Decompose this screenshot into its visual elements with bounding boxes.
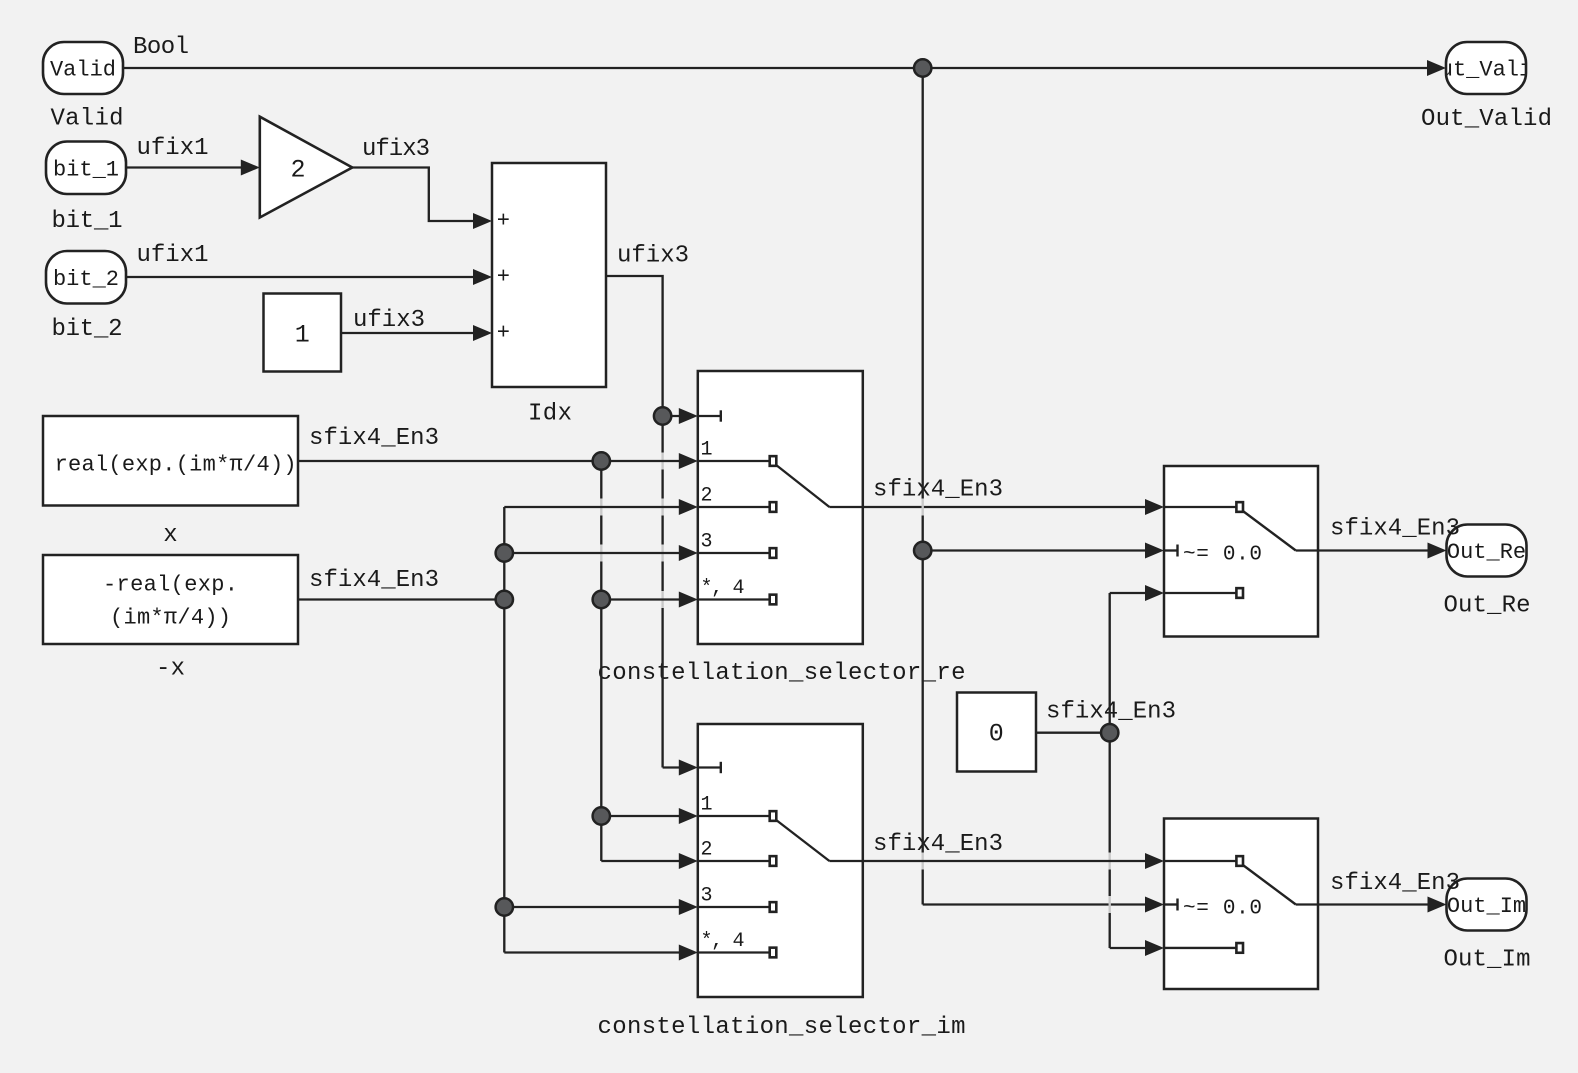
svg-text:Out_Re: Out_Re <box>1444 593 1531 620</box>
multiport switch constellation_selector_im <box>698 724 863 997</box>
svg-text:Out_Valid: Out_Valid <box>1421 106 1552 133</box>
svg-text:Bool: Bool <box>133 34 189 61</box>
wire -x net corner to selector_re port 2 <box>504 506 683 508</box>
switch_im control stub <box>1165 903 1178 905</box>
wire constant 1 to Idx input 3 <box>341 332 477 334</box>
svg-text:real(exp.(im*π/4)): real(exp.(im*π/4)) <box>55 453 297 478</box>
wire x to selector_re port 1 <box>298 460 683 462</box>
selector_re port *,4 pad <box>770 595 777 605</box>
selector_re port 1 pad <box>770 456 777 466</box>
svg-text:+: + <box>497 208 510 233</box>
svg-text:sfix4_En3: sfix4_En3 <box>1330 870 1460 897</box>
switch_im input 1 stub <box>1165 860 1237 862</box>
wire 0 net corner to switch_im input 3 <box>1110 947 1150 949</box>
wire constant 0 to junction <box>1036 732 1110 734</box>
svg-text:0: 0 <box>989 720 1004 749</box>
selector_re port 2 stub <box>699 506 770 508</box>
junction dot -x net at selector_im port 3 <box>496 898 513 915</box>
wire -x to junction <box>298 598 504 600</box>
switch_re input 1 stub <box>1165 506 1237 508</box>
svg-text:+: + <box>497 320 510 345</box>
wire Valid to Out_Valid <box>123 67 1431 69</box>
wire 0 net vertical (with crossing gaps) <box>1109 593 1111 853</box>
svg-text:1: 1 <box>701 439 713 462</box>
svg-text:2: 2 <box>701 839 713 862</box>
junction dot x net at selector_im port 1 <box>593 807 610 824</box>
svg-text:Idx: Idx <box>528 401 572 428</box>
wire bit_1 to gain <box>126 166 245 168</box>
svg-text:constellation_selector_im: constellation_selector_im <box>598 1014 966 1041</box>
svg-text:*, 4: *, 4 <box>701 577 745 600</box>
svg-text:bit_2: bit_2 <box>52 316 123 343</box>
selector_im port 2 pad <box>770 856 777 866</box>
selector_re switch arm <box>776 465 830 508</box>
svg-text:bit_1: bit_1 <box>52 208 123 235</box>
wire bit_2 to Idx input 2 <box>126 276 477 278</box>
svg-text:sfix4_En3: sfix4_En3 <box>1330 516 1460 543</box>
wire -x net to selector_re port 3 <box>504 552 683 554</box>
wire selector_im out to switch_im input 1 <box>863 860 1150 862</box>
svg-text:constellation_selector_re: constellation_selector_re <box>598 660 966 687</box>
junction dot -x net at selector_re port 3 <box>496 544 513 561</box>
svg-text:1: 1 <box>295 321 310 350</box>
svg-text:-x: -x <box>156 656 185 683</box>
svg-text:bit_1: bit_1 <box>53 157 119 182</box>
svg-text:3: 3 <box>701 885 713 908</box>
switch_im input 3 pad <box>1236 943 1243 953</box>
selector_im port *,4 pad <box>770 948 777 958</box>
switch_im input 1 pad <box>1236 856 1243 866</box>
selector_re port *,4 stub <box>699 598 770 600</box>
sum block Idx <box>492 163 606 387</box>
switch block for Out_Im <box>1164 819 1318 990</box>
switch block for Out_Re <box>1164 466 1318 637</box>
junction dot Valid net (top) <box>914 59 931 76</box>
constant block 0 <box>957 693 1036 772</box>
junction dot x net at selector_re port *,4 <box>593 591 610 608</box>
svg-text:*, 4: *, 4 <box>701 930 745 953</box>
selector_im port 1 pad <box>770 811 777 821</box>
constant block -x = -real(exp.(im*pi/4)) <box>43 555 298 644</box>
svg-text:~= 0.0: ~= 0.0 <box>1183 544 1262 567</box>
selector_re control stub <box>699 415 721 417</box>
svg-text:Out_Im: Out_Im <box>1444 947 1531 974</box>
wire Valid net vertical (with crossing gaps) <box>922 68 924 499</box>
selector_re port 2 pad <box>770 502 777 512</box>
constant block x = real(exp.(im*pi/4)) <box>43 416 298 506</box>
wire -x net to selector_im port 3 <box>504 906 683 908</box>
svg-text:sfix4_En3: sfix4_En3 <box>873 831 1003 858</box>
svg-text:ufix3: ufix3 <box>353 307 425 334</box>
switch_re input 3 pad <box>1236 588 1243 598</box>
junction dot x net on x wire <box>593 452 610 469</box>
selector_im port *,4 stub <box>699 951 770 953</box>
wire switch_re out to Out_Re <box>1318 549 1432 551</box>
svg-text:Out_Im: Out_Im <box>1447 894 1526 919</box>
svg-text:bit_2: bit_2 <box>53 267 119 292</box>
wire selector_re out to switch_re input 1 <box>863 506 1150 508</box>
svg-text:sfix4_En3: sfix4_En3 <box>309 425 439 452</box>
svg-text:2: 2 <box>290 156 305 185</box>
svg-text:Out_Re: Out_Re <box>1447 540 1526 565</box>
wire control junction to selector_re control <box>663 415 683 417</box>
svg-text:(im*π/4)): (im*π/4)) <box>110 606 231 631</box>
svg-text:Valid: Valid <box>50 58 116 83</box>
svg-text:-real(exp.: -real(exp. <box>103 573 238 598</box>
wire switch_im out to Out_Im <box>1318 903 1432 905</box>
svg-text:x: x <box>163 522 177 549</box>
selector_re port 3 stub <box>699 552 770 554</box>
wire gain out elbow to Idx input 1 <box>352 168 477 222</box>
selector_im port 3 pad <box>770 902 777 912</box>
wire x net vertical (with crossing gaps) <box>600 461 602 499</box>
wire x net to selector_re port *,4 <box>601 598 683 600</box>
wire -x net vertical <box>503 507 505 953</box>
wire Valid net corner to switch_im control <box>923 903 1150 905</box>
switch_re input 1 pad <box>1236 502 1243 512</box>
svg-text:2: 2 <box>701 485 713 508</box>
selector_im switch arm <box>776 820 830 862</box>
wire Valid net to switch_re control <box>923 549 1150 551</box>
svg-text:Valid: Valid <box>51 106 124 133</box>
wire Idx net vertical to selector_im control (with crossing gaps) <box>661 425 663 453</box>
selector_im control stub <box>699 766 721 768</box>
svg-text:~= 0.0: ~= 0.0 <box>1183 898 1262 921</box>
selector_re port 3 pad <box>770 548 777 558</box>
gain block value 2 <box>260 117 353 218</box>
junction dot 0 net <box>1101 724 1118 741</box>
svg-text:sfix4_En3: sfix4_En3 <box>1046 699 1176 726</box>
switch_re arm <box>1242 511 1296 551</box>
wire Idx out elbow down <box>606 276 663 407</box>
selector_re port 1 stub <box>699 460 770 462</box>
svg-text:ufix3: ufix3 <box>617 243 689 270</box>
junction dot -x net on -x wire <box>496 591 513 608</box>
selector_im port 2 stub <box>699 860 770 862</box>
wire x net corner to selector_im port 2 <box>601 860 683 862</box>
switch_im arm <box>1242 865 1296 905</box>
svg-text:ufix3: ufix3 <box>362 136 430 163</box>
svg-text:1: 1 <box>701 794 713 817</box>
wire 0 net corner to switch_re input 3 <box>1110 592 1150 594</box>
switch_im input 3 stub <box>1165 947 1237 949</box>
selector_im port 3 stub <box>699 906 770 908</box>
wire -x net corner to selector_im port *,4 <box>504 951 683 953</box>
svg-text:sfix4_En3: sfix4_En3 <box>309 567 439 594</box>
junction dot Valid net at switch_re control <box>914 542 931 559</box>
selector_im port 1 stub <box>699 815 770 817</box>
switch_re input 3 stub <box>1165 592 1237 594</box>
svg-text:+: + <box>497 264 510 289</box>
wire x net to selector_im port 1 <box>601 815 683 817</box>
svg-text:3: 3 <box>701 531 713 554</box>
constant block 1 <box>264 294 342 372</box>
multiport switch constellation_selector_re <box>698 371 863 644</box>
svg-text:ufix1: ufix1 <box>137 135 209 162</box>
svg-text:ufix1: ufix1 <box>137 242 209 269</box>
junction dot Idx net at selector_re control <box>654 407 671 424</box>
svg-text:sfix4_En3: sfix4_En3 <box>873 477 1003 504</box>
switch_re control stub <box>1165 549 1178 551</box>
